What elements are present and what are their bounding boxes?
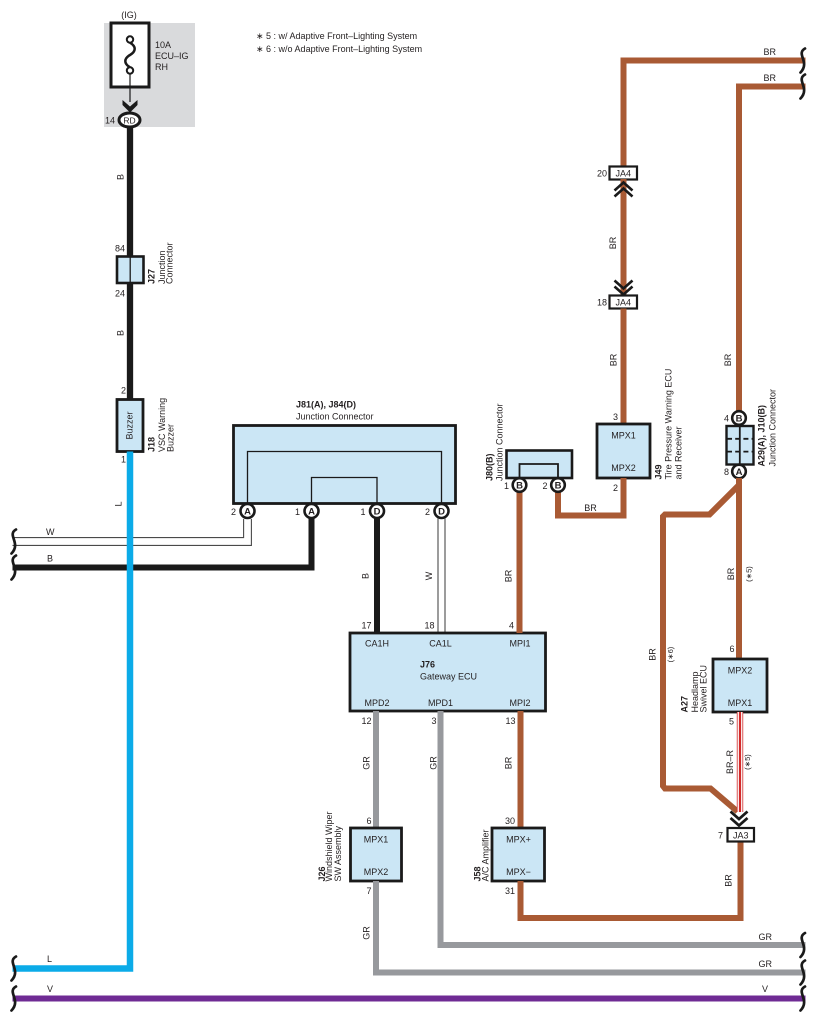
svg-text:GR: GR [362, 756, 372, 770]
wire BR MPI2 to J58 MPX+ [518, 711, 524, 828]
svg-text:J81(A), J84(D): J81(A), J84(D) [296, 400, 356, 410]
svg-text:A: A [244, 507, 251, 518]
svg-text:MPX2: MPX2 [728, 666, 753, 676]
svg-text:4: 4 [509, 621, 514, 631]
svg-text:1: 1 [504, 481, 509, 491]
svg-text:and Receiver: and Receiver [674, 426, 684, 479]
svg-text:14: 14 [105, 116, 115, 126]
svg-text:MPX2: MPX2 [364, 867, 389, 877]
svg-text:L: L [47, 954, 52, 964]
break W left [12, 530, 17, 554]
break V left [12, 987, 17, 1011]
svg-text:J18: J18 [147, 437, 157, 452]
svg-text:5: 5 [729, 717, 734, 727]
svg-text:3: 3 [613, 412, 618, 422]
wire B from D1 to CA1H [374, 518, 380, 633]
svg-text:W: W [46, 527, 55, 537]
svg-text:Gateway ECU: Gateway ECU [420, 672, 477, 682]
svg-text:Tire Pressure Warning ECU: Tire Pressure Warning ECU [664, 369, 674, 480]
wire W from A2 to left edge [13, 519, 244, 538]
svg-text:2: 2 [542, 481, 547, 491]
svg-text:18: 18 [597, 298, 607, 308]
svg-text:GR: GR [759, 959, 773, 969]
svg-text:B: B [116, 174, 126, 180]
junction connector J27 [117, 257, 144, 284]
svg-text:BR: BR [648, 648, 658, 661]
svg-text:W: W [424, 571, 434, 580]
break B left [12, 556, 17, 580]
wire BR JA4 18 to J49 [621, 309, 627, 425]
svg-text:CA1H: CA1H [365, 639, 389, 649]
wire BR-R A27 MPX1 to JA3 [737, 712, 743, 812]
wire GR J26 MPX2 to right edge [376, 881, 806, 973]
svg-text:12: 12 [361, 716, 371, 726]
svg-text:(∗6): (∗6) [666, 646, 675, 662]
wire W from D2 to CA1L [437, 518, 439, 633]
svg-text:J76: J76 [420, 660, 435, 670]
svg-text:MPI1: MPI1 [509, 639, 530, 649]
wire B from RD to J18 pin 2 [127, 127, 133, 399]
svg-text:2: 2 [121, 386, 126, 396]
svg-text:(∗5): (∗5) [745, 566, 754, 582]
svg-text:31: 31 [505, 886, 515, 896]
svg-text:17: 17 [361, 621, 371, 631]
fuse value label 10A ECU-IG RH [155, 40, 189, 72]
svg-text:Buzzer: Buzzer [125, 411, 135, 439]
svg-text:7: 7 [366, 886, 371, 896]
inner bus A1-D1 [312, 478, 378, 504]
svg-text:2: 2 [613, 483, 618, 493]
svg-text:BR: BR [724, 874, 734, 887]
svg-text:6: 6 [366, 816, 371, 826]
wire GR MPD2 to J26 [373, 711, 379, 828]
wire GR MPD1 to right edge [441, 711, 806, 945]
svg-text:MPX1: MPX1 [611, 431, 636, 441]
wire BR JA4 20 to JA4 18 [621, 179, 627, 296]
svg-text:2: 2 [231, 507, 236, 517]
svg-text:20: 20 [597, 169, 607, 179]
svg-text:MPI2: MPI2 [509, 698, 530, 708]
svg-text:BR: BR [608, 236, 618, 249]
svg-text:JA4: JA4 [615, 169, 631, 179]
svg-text:MPD1: MPD1 [428, 698, 453, 708]
svg-text:1: 1 [360, 507, 365, 517]
terminal B1 [513, 478, 527, 492]
svg-text:(IG): (IG) [121, 10, 137, 20]
svg-text:Buzzer: Buzzer [166, 424, 176, 452]
svg-text:8: 8 [724, 467, 729, 477]
svg-text:30: 30 [505, 816, 515, 826]
svg-text:1: 1 [121, 455, 126, 465]
svg-text:CA1L: CA1L [429, 639, 452, 649]
svg-text:B: B [116, 330, 126, 336]
break BR top right [801, 49, 806, 73]
IG power source shaded area [104, 23, 195, 127]
svg-text:GR: GR [429, 756, 439, 770]
svg-text:B: B [361, 573, 371, 579]
svg-text:SW Assembly: SW Assembly [333, 825, 343, 881]
svg-text:D: D [374, 507, 381, 518]
wire V bottom [13, 996, 806, 1002]
svg-text:A/C Amplifier: A/C Amplifier [481, 829, 491, 881]
svg-text:RH: RH [155, 62, 168, 72]
junction connector J81/J84 box [234, 426, 456, 504]
svg-text:L: L [114, 501, 124, 506]
svg-text:Swivel ECU: Swivel ECU [699, 665, 709, 713]
wire BR J58 MPX- to JA3 [521, 842, 741, 919]
wire fuse output [129, 74, 131, 102]
gateway ECU J76 box [350, 633, 546, 711]
wire BR J49 pin2 to J80 B2 [558, 478, 624, 516]
junction connector J81(A) J84(D) title [296, 400, 374, 422]
svg-text:1: 1 [295, 507, 300, 517]
svg-text:V: V [762, 984, 768, 994]
wire BR A8 down to A27 MPX2 [736, 478, 742, 659]
svg-text:Connector: Connector [165, 242, 175, 284]
svg-text:GR: GR [362, 926, 372, 940]
svg-text:Junction Connector: Junction Connector [768, 389, 778, 467]
label J18 VSC Warning Buzzer [147, 398, 176, 452]
terminal A1 [305, 504, 319, 518]
svg-text:J80(B): J80(B) [485, 453, 495, 481]
svg-text:4: 4 [724, 414, 729, 424]
svg-text:A: A [308, 507, 315, 518]
svg-text:2: 2 [425, 507, 430, 517]
svg-text:BR: BR [723, 353, 733, 366]
chevrons down to JA3 [731, 812, 748, 820]
buzzer J18 VSC Warning Buzzer [117, 400, 143, 452]
connector JA4 pin 18 [610, 296, 638, 309]
svg-text:B: B [736, 414, 743, 425]
svg-text:84: 84 [115, 244, 125, 254]
svg-text:7: 7 [718, 831, 723, 841]
svg-text:13: 13 [505, 716, 515, 726]
svg-text:BR: BR [609, 353, 619, 366]
svg-text:BR: BR [584, 503, 597, 513]
break L left [12, 957, 17, 981]
svg-text:A: A [736, 467, 743, 478]
connector oval RD [119, 113, 140, 127]
svg-text:JA4: JA4 [615, 298, 631, 308]
svg-text:BR: BR [763, 73, 776, 83]
svg-text:MPX+: MPX+ [506, 835, 531, 845]
svg-text:MPD2: MPD2 [364, 698, 389, 708]
junction connector A29(A) J10(B) box [727, 426, 754, 465]
svg-text:10A: 10A [155, 40, 171, 50]
svg-text:BR: BR [504, 756, 514, 769]
svg-text:MPX1: MPX1 [728, 698, 753, 708]
wire BR *6 branch to JA3 [663, 485, 739, 812]
wire B from A1 to left edge [13, 518, 312, 568]
svg-text:(∗5): (∗5) [743, 754, 752, 770]
svg-text:RD: RD [123, 115, 135, 125]
svg-text:B: B [555, 481, 562, 492]
svg-text:∗ 5 : w/ Adaptive Front–Lighti: ∗ 5 : w/ Adaptive Front–Lighting System [256, 31, 417, 41]
svg-text:6: 6 [729, 644, 734, 654]
junction connector J80(B) [507, 451, 573, 479]
chevrons up to JA4 20 [615, 183, 633, 191]
svg-text:24: 24 [115, 289, 125, 299]
svg-text:J49: J49 [654, 464, 664, 479]
svg-text:J27: J27 [147, 269, 157, 284]
terminal B4 of A29/J10 [732, 411, 746, 425]
svg-text:ECU–IG: ECU–IG [155, 51, 189, 61]
svg-text:D: D [438, 507, 445, 518]
terminal A2 [241, 504, 255, 518]
svg-text:V: V [47, 984, 53, 994]
svg-text:∗ 6 : w/o Adaptive Front–Light: ∗ 6 : w/o Adaptive Front–Lighting System [256, 44, 422, 54]
fuse 10A ECU-IG RH [111, 23, 149, 87]
svg-text:BR: BR [763, 47, 776, 57]
inner bus A2-D2 [248, 452, 442, 504]
svg-text:BR–R: BR–R [725, 750, 735, 775]
arrowhead into pin 14 [123, 100, 138, 113]
connector JA4 pin 20 [610, 167, 638, 180]
svg-text:B: B [47, 554, 53, 564]
terminal A8 of A29/J10 [732, 465, 746, 479]
break GR2 right [801, 961, 806, 985]
svg-text:3: 3 [431, 716, 436, 726]
break V right [801, 987, 806, 1011]
terminal B2 [551, 478, 565, 492]
label J27 Junction Connector [147, 242, 175, 284]
svg-text:A29(A), J10(B): A29(A), J10(B) [757, 405, 767, 467]
terminal D2 [435, 504, 449, 518]
wire BR right top to A29 B4 [739, 87, 806, 412]
svg-text:Junction Connector: Junction Connector [296, 412, 374, 422]
wire L blue from J18 pin1 to bottom left [13, 452, 131, 969]
connector JA3 pin 7 [728, 828, 755, 842]
svg-text:Junction Connector: Junction Connector [495, 403, 505, 481]
svg-text:A27: A27 [680, 696, 690, 713]
svg-text:JA3: JA3 [733, 831, 749, 841]
svg-text:BR: BR [726, 567, 736, 580]
break BR2 right [801, 75, 806, 99]
svg-text:MPX1: MPX1 [364, 835, 389, 845]
svg-text:MPX−: MPX− [506, 867, 531, 877]
svg-text:GR: GR [759, 932, 773, 942]
wire BR top to right edge [624, 61, 806, 167]
terminal D1 [370, 504, 384, 518]
wire BR J80-B1 to MPI1 [517, 491, 523, 633]
svg-text:BR: BR [504, 569, 514, 582]
svg-text:18: 18 [424, 621, 434, 631]
chevrons down to JA4 18 [615, 281, 633, 289]
break GR right [801, 933, 806, 957]
svg-text:B: B [516, 481, 523, 492]
svg-text:MPX2: MPX2 [611, 463, 636, 473]
